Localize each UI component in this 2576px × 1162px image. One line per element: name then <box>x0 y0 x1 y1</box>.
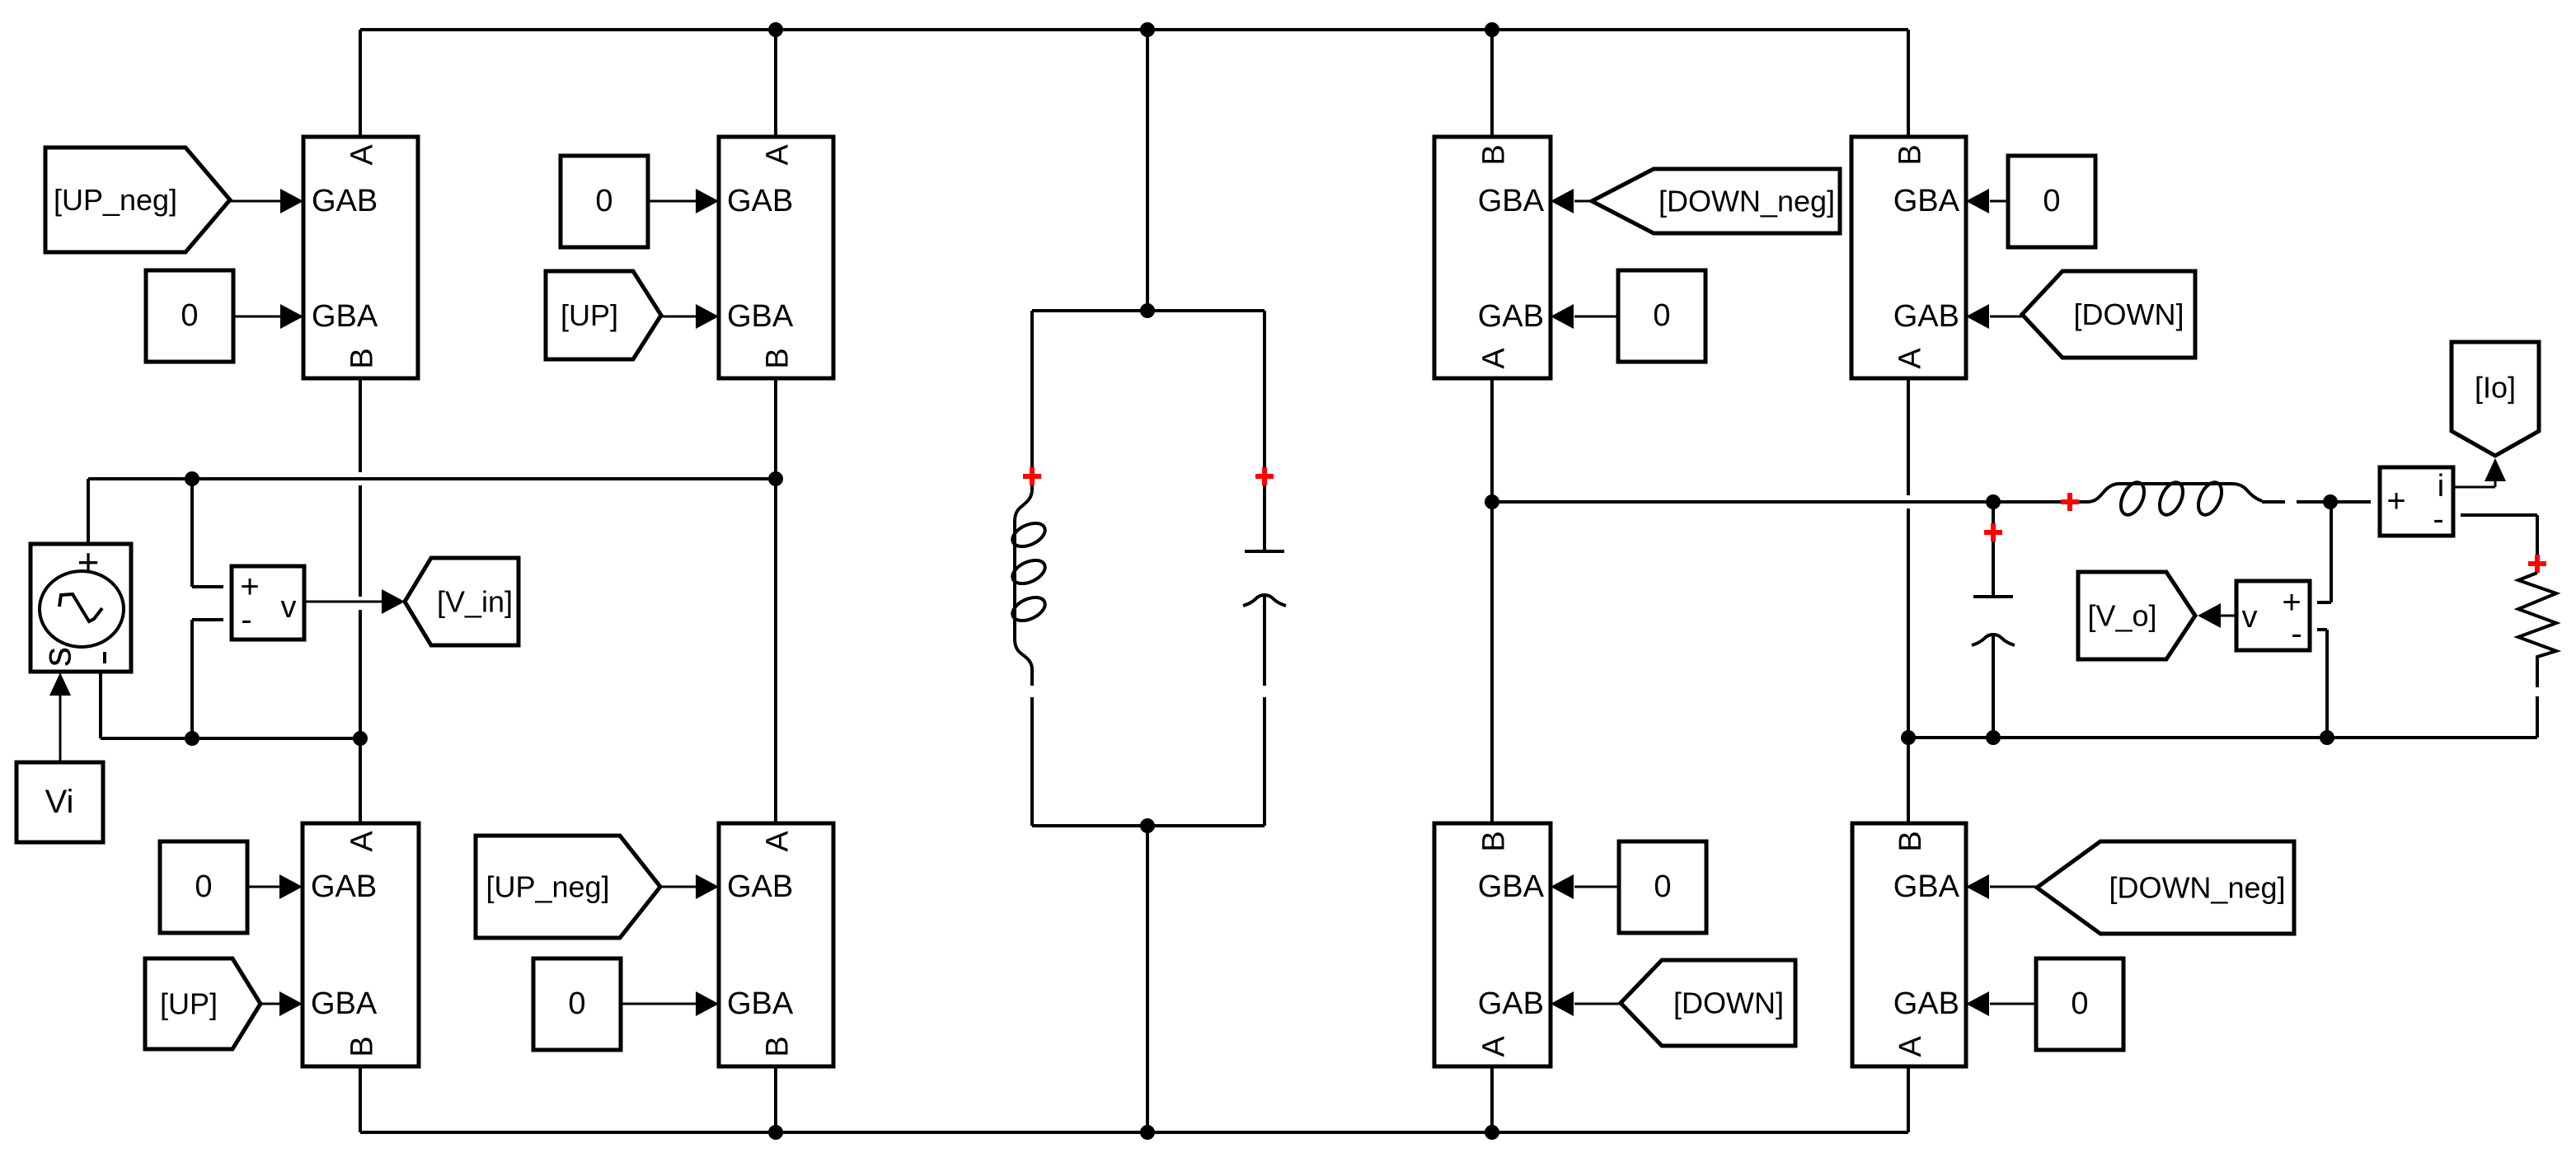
svg-text:GAB: GAB <box>727 184 793 218</box>
capacitor C_o <box>1972 597 2015 645</box>
arrow V1 to [V_in] <box>304 589 405 614</box>
svg-text:[V_in]: [V_in] <box>437 585 513 619</box>
svg-text:B: B <box>1477 831 1512 851</box>
wire: output wire to ammeter <box>2297 500 2371 504</box>
wire: S6 B to bottom rail <box>774 1066 777 1132</box>
svg-text:GBA: GBA <box>1893 184 1960 218</box>
svg-text:0: 0 <box>1654 869 1671 904</box>
wire: resistor bottom lead <box>2536 696 2539 738</box>
svg-text:A: A <box>1893 1036 1928 1057</box>
voltmeter V1 (input) <box>232 566 304 640</box>
S5 GBA input arrow <box>260 991 303 1016</box>
svg-text:B: B <box>761 348 795 368</box>
svg-text:+: + <box>77 541 100 583</box>
switch block S5 <box>303 823 419 1066</box>
svg-text:A: A <box>1893 348 1928 369</box>
svg-text:A: A <box>761 144 795 166</box>
S3 GAB input arrow <box>1551 304 1618 329</box>
wire: S3 A to S7 B <box>1490 378 1494 823</box>
constant 0 block C4 <box>2008 156 2095 247</box>
junction dot LC bottom <box>1140 818 1155 833</box>
svg-text:0: 0 <box>2071 986 2088 1021</box>
svg-text:0: 0 <box>1653 298 1670 333</box>
svg-text:v: v <box>2242 600 2258 635</box>
S4 GAB input arrow <box>1966 304 2022 329</box>
inductor L1 (vertical) <box>1009 449 1049 686</box>
wire: left bottom rail <box>101 737 359 740</box>
svg-text:[V_o]: [V_o] <box>2087 599 2156 633</box>
svg-text:GBA: GBA <box>1478 869 1545 904</box>
constant 0 block C8 <box>2036 958 2123 1050</box>
switch block S2 <box>719 137 833 378</box>
wire: S1 B to S5 A (with crossing gaps) <box>359 378 362 823</box>
wire: source + lead <box>87 479 90 544</box>
svg-text:GBA: GBA <box>727 986 794 1021</box>
polarity + of L1 <box>1023 467 1041 485</box>
wire: left top rail <box>88 477 776 480</box>
svg-text:[DOWN_neg]: [DOWN_neg] <box>2109 871 2285 905</box>
svg-text:GBA: GBA <box>1893 869 1960 904</box>
svg-text:0: 0 <box>595 184 612 218</box>
S1 GBA input arrow <box>232 304 303 329</box>
wire: ammeter - to resistor <box>2461 515 2537 573</box>
arrow V2 to [V_o] <box>2198 603 2236 628</box>
junction dot column4 / bottom-right rail <box>1901 730 1916 745</box>
arrow ammeter to [Io] <box>2453 458 2506 487</box>
S7 GAB input arrow <box>1551 991 1621 1016</box>
svg-text:A: A <box>761 831 795 852</box>
svg-text:GAB: GAB <box>1478 299 1544 334</box>
svg-text:-: - <box>2433 501 2443 537</box>
svg-text:[UP]: [UP] <box>160 987 218 1021</box>
junction dot top rail / middle <box>1140 22 1155 37</box>
junction dot bottom rail / S6 <box>768 1125 783 1140</box>
svg-text:A: A <box>1477 1036 1512 1057</box>
wire: bottom-right rail <box>1908 736 2537 739</box>
junction dot bottom-right rail / V2 <box>2320 730 2334 745</box>
capacitor C_t (middle tank) <box>1243 551 1286 606</box>
junction dot top rail / S3 <box>1485 22 1499 37</box>
svg-text:0: 0 <box>181 298 198 333</box>
svg-text:+: + <box>2386 483 2405 519</box>
capacitor C_o leads <box>1992 502 1995 738</box>
svg-text:GAB: GAB <box>1893 986 1959 1021</box>
wire: S2 B to S6 A <box>774 378 777 823</box>
svg-text:GAB: GAB <box>312 184 378 218</box>
junction dot top rail / S2 <box>768 22 783 37</box>
from tag [UP] (top, feeds S2 GBA) <box>546 271 661 359</box>
S7 GBA input arrow <box>1551 874 1619 899</box>
constant 0 block C3 <box>1618 270 1706 362</box>
svg-text:[UP_neg]: [UP_neg] <box>486 870 609 904</box>
svg-text:+: + <box>240 569 259 605</box>
wire: source - lead <box>99 672 102 738</box>
constant 0 block C1 <box>146 270 233 362</box>
from tag [DOWN_neg] (bottom, feeds S8 GBA) <box>2037 841 2294 934</box>
goto tag [V_in] <box>405 558 518 645</box>
svg-text:B: B <box>1893 831 1928 851</box>
wire: S4 B to top rail <box>1907 30 1910 137</box>
wire: LC tank top rail <box>1032 309 1265 312</box>
svg-text:A: A <box>345 144 380 166</box>
svg-text:[DOWN]: [DOWN] <box>1673 986 1784 1020</box>
svg-text:0: 0 <box>2043 184 2060 218</box>
svg-text:s: s <box>36 647 80 667</box>
wire: L_o right lead <box>2262 500 2285 504</box>
from tag [DOWN_neg] (top, feeds S3 GBA) <box>1592 169 1840 233</box>
S8 GAB input arrow <box>1966 991 2036 1016</box>
wire: S4 A to S8 B (with crossing gap) <box>1907 378 1910 823</box>
AC voltage source <box>30 541 131 672</box>
junction dot LC top <box>1140 303 1155 318</box>
svg-text:GAB: GAB <box>1478 986 1544 1021</box>
switch block S3 <box>1434 137 1551 378</box>
wire: bottom bus rail <box>360 1131 1908 1134</box>
polarity + of R_load <box>2528 555 2546 573</box>
svg-text:GAB: GAB <box>1893 299 1959 334</box>
junction dot bottom rail / middle <box>1140 1125 1155 1140</box>
svg-text:B: B <box>345 1036 380 1057</box>
svg-text:[DOWN]: [DOWN] <box>2074 298 2184 331</box>
polarity + of L_o <box>2061 493 2079 511</box>
svg-text:A: A <box>1477 348 1512 369</box>
wire: inductor L1 top lead <box>1030 311 1034 451</box>
wire: top bus rail <box>360 28 1908 31</box>
wire: S1 A to top rail <box>359 30 362 137</box>
svg-text:GBA: GBA <box>312 299 378 334</box>
polarity + of C_t <box>1255 467 1274 485</box>
wire: middle column to bottom rail <box>1146 826 1149 1132</box>
svg-text:B: B <box>345 348 380 368</box>
junction dot bottom rail / S7 <box>1485 1125 1499 1140</box>
wire: S8 A to bottom rail <box>1907 1066 1910 1132</box>
svg-text:i: i <box>2438 469 2444 504</box>
svg-text:GBA: GBA <box>1478 184 1545 218</box>
svg-text:[DOWN_neg]: [DOWN_neg] <box>1659 185 1835 218</box>
junction dot column3 / output wire <box>1485 494 1499 509</box>
wire: S3 B to top rail <box>1490 30 1494 137</box>
junction dot bottom-right rail / C_o <box>1986 730 2001 745</box>
S5 GAB input arrow <box>246 874 303 899</box>
from tag [DOWN] (bottom, feeds S7 GAB) <box>1621 960 1795 1046</box>
svg-text:[Io]: [Io] <box>2475 371 2516 405</box>
constant 0 block C5 <box>160 841 247 933</box>
constant 0 block C7 <box>1619 841 1706 933</box>
wire: S2 A to top rail <box>774 30 777 137</box>
S8 GBA input arrow <box>1966 874 2037 899</box>
S3 GBA input arrow <box>1551 189 1592 213</box>
svg-text:v: v <box>281 590 297 625</box>
S2 GAB input arrow <box>647 189 719 213</box>
svg-text:[UP_neg]: [UP_neg] <box>54 183 177 217</box>
switch block S4 <box>1851 137 1966 378</box>
svg-text:B: B <box>1893 144 1928 165</box>
from tag [UP] (bottom, feeds S5 GBA) <box>145 958 260 1049</box>
wire: V1 + stub <box>192 479 223 587</box>
polarity + of C_o <box>1984 523 2002 541</box>
svg-text:B: B <box>1477 144 1512 165</box>
from tag [UP_neg] (bottom, feeds S6 GAB) <box>476 836 660 938</box>
svg-text:GAB: GAB <box>727 869 793 904</box>
wire: S5 B to bottom rail <box>359 1066 362 1132</box>
ammeter I1 <box>2380 467 2453 537</box>
svg-text:GBA: GBA <box>311 986 378 1021</box>
wire: V1 - stub <box>192 620 223 738</box>
goto tag [V_o] <box>2078 572 2195 659</box>
from tag [DOWN] (top, feeds S4 GAB) <box>2022 271 2195 358</box>
wire: capacitor C_t bottom lead <box>1263 595 1266 826</box>
S6 GBA input arrow <box>622 991 719 1016</box>
constant 0 block C6 <box>533 958 621 1050</box>
S2 GBA input arrow <box>661 304 719 329</box>
svg-text:A: A <box>345 831 380 852</box>
svg-text:-: - <box>241 602 251 638</box>
junction dot column1 / left bottom rail <box>353 731 368 746</box>
voltmeter V2 (output) <box>2236 581 2310 652</box>
switch block S6 <box>719 823 833 1066</box>
wire: S7 A to bottom rail <box>1490 1066 1494 1132</box>
switch block S7 <box>1434 823 1551 1066</box>
arrow Vi to source <box>49 672 71 762</box>
wire: V2 + stub <box>2317 502 2331 602</box>
svg-text:0: 0 <box>568 986 585 1021</box>
svg-text:[UP]: [UP] <box>561 298 618 332</box>
svg-text:B: B <box>761 1036 795 1057</box>
junction dot output / V2 <box>2323 494 2338 509</box>
wire: capacitor C_t top lead <box>1263 311 1266 551</box>
svg-text:GAB: GAB <box>311 869 377 904</box>
junction dot column2 / left top rail <box>768 471 783 486</box>
junction dot output / C_o <box>1986 494 2001 509</box>
junction dot left top rail / voltmeter <box>185 471 199 486</box>
svg-text:Vi: Vi <box>45 784 74 820</box>
from tag [UP_neg] (top, feeds S1 GAB) <box>45 148 230 252</box>
wire: V2 - stub <box>2317 630 2327 738</box>
junction dot left bottom rail / voltmeter <box>185 731 199 746</box>
svg-text:-: - <box>2291 616 2302 652</box>
signal block Vi <box>16 762 103 842</box>
wire: inductor L1 bottom lead <box>1030 697 1034 826</box>
goto tag [Io] (points down) <box>2452 342 2539 456</box>
wire: output node wire <box>1492 500 2087 504</box>
svg-text:GBA: GBA <box>727 299 794 334</box>
svg-text:0: 0 <box>195 869 212 904</box>
switch block S1 <box>303 137 418 378</box>
switch block S8 <box>1852 823 1966 1066</box>
S1 GAB input arrow <box>230 189 303 213</box>
constant 0 block C2 <box>561 156 648 247</box>
inductor L_o (horizontal) <box>2087 479 2262 518</box>
resistor R_load <box>2518 573 2556 687</box>
wire: LC tank bottom rail <box>1032 824 1265 827</box>
wire: middle column to top rail <box>1146 30 1149 311</box>
S4 GBA input arrow <box>1966 189 2008 213</box>
S6 GAB input arrow <box>660 874 719 899</box>
